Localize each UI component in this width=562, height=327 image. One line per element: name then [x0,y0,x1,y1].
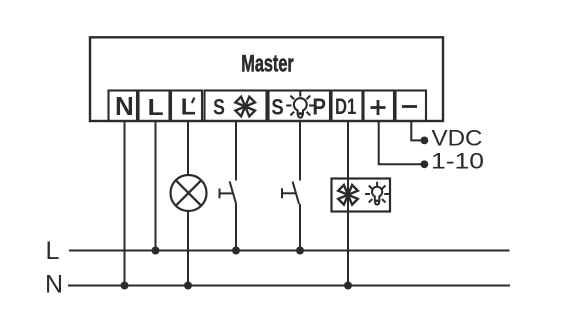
svg-text:S: S [213,94,225,119]
svg-text:L: L [148,94,164,120]
svg-text:Master: Master [241,51,294,78]
svg-text:N: N [45,271,63,299]
svg-text:P: P [312,93,326,119]
svg-text:VDC: VDC [432,126,483,151]
svg-text:1-10: 1-10 [431,149,484,174]
svg-text:S: S [271,94,283,119]
svg-text:N: N [115,91,134,121]
svg-text:L: L [181,94,196,120]
svg-text:D1: D1 [335,94,356,119]
svg-text:L: L [46,237,60,265]
